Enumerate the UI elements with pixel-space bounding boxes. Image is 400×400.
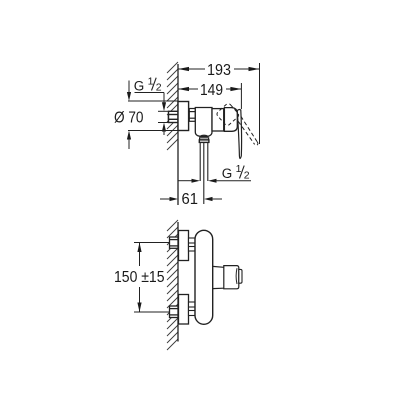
G1/2 nipple (wall connection, top view): [169, 111, 179, 122]
outlet ring: [200, 138, 209, 140]
top union nut (front view): [189, 238, 196, 251]
top wall nut (front view): [170, 237, 179, 248]
pipe centre line / extension: [203, 143, 205, 204]
dimension 61: [160, 198, 170, 200]
svg-text:2: 2: [244, 169, 250, 181]
top escutcheon (front view): [179, 231, 189, 261]
outlet pipe: [200, 143, 208, 181]
extension line for 149: [240, 83, 242, 109]
svg-text:G: G: [134, 78, 145, 93]
handle cap (top view): [224, 108, 237, 132]
outlet nut: [199, 140, 209, 143]
svg-text:1: 1: [148, 75, 154, 87]
extension line for 193: [259, 63, 261, 144]
label G 1/2 (bottom, outlet thread): [222, 163, 250, 181]
wall line (top view): [177, 64, 179, 205]
dashed lever (alternate position): [238, 116, 258, 145]
mixer body capsule (front view): [195, 230, 213, 324]
svg-text:Ø 70: Ø 70: [114, 109, 144, 126]
svg-text:193: 193: [207, 62, 231, 79]
svg-text:149: 149: [200, 82, 223, 99]
outlet shoulder arc: [200, 135, 208, 136]
leader for G 1/2 top: [135, 93, 165, 104]
cartridge cone (front view): [213, 266, 224, 288]
label G 1/2 (top left): [134, 75, 162, 93]
dimension 193: [178, 68, 260, 70]
bottom escutcheon (front view): [179, 295, 189, 325]
dimension 149: [178, 88, 241, 90]
svg-text:2: 2: [156, 81, 162, 93]
svg-text:150 ±15: 150 ±15: [114, 269, 165, 286]
dimension Ø70: [128, 81, 178, 150]
arrows for outlet G 1/2: [178, 180, 192, 182]
svg-text:G: G: [222, 166, 233, 181]
bottom union nut (front view): [189, 302, 196, 316]
knob end cap: [239, 269, 242, 283]
wall line (front view): [177, 222, 179, 342]
mixer body (top view): [195, 108, 212, 137]
knob face arc: [235, 268, 238, 284]
wall hatching (front view): [167, 220, 178, 350]
bottom wall nut (front view): [170, 306, 179, 318]
cartridge ring (top view): [212, 109, 224, 131]
dimension 150 ±15: [134, 243, 170, 313]
lever handle (solid, pointing down): [237, 109, 241, 158]
handle knob (front view): [224, 266, 239, 289]
dashed handle cap (alternate position): [216, 102, 240, 126]
escutcheon (top view): [178, 102, 189, 131]
extension lines of nipple edges: [158, 111, 169, 122]
svg-text:61: 61: [182, 191, 199, 208]
wall hatching (top view): [167, 62, 178, 150]
s-union nut (top view): [189, 109, 195, 122]
svg-text:1: 1: [236, 163, 242, 175]
